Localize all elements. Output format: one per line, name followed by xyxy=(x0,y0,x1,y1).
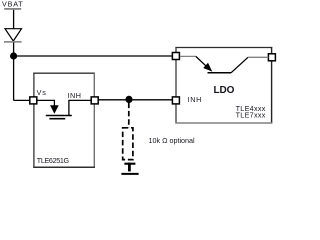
wire U1 INH pin to node B xyxy=(98,99,129,101)
svg-text:LDO: LDO xyxy=(214,85,235,96)
junction node B xyxy=(125,96,132,103)
transistor Q1 top bar xyxy=(46,115,72,117)
wire dashed node B to resistor R1 xyxy=(128,103,130,128)
diode D1 (reverse-polarity protection) xyxy=(4,29,22,43)
svg-text:INH: INH xyxy=(188,95,202,104)
pin INH of U2 xyxy=(172,97,179,104)
transistor Q2 emitter arrow xyxy=(203,63,212,72)
wire node B to LDO INH pin xyxy=(129,99,172,101)
IC U1 TLE6251G box xyxy=(33,73,95,168)
wire node A to LDO input pin (top rail) xyxy=(14,55,173,57)
pin Vs of U1 xyxy=(30,97,37,104)
wire Q1 drain to INH pin xyxy=(69,100,91,115)
transistor Q2 collector stub xyxy=(248,56,268,58)
pin INH of U1 xyxy=(91,97,98,104)
transistor Q1 gate arrow xyxy=(50,105,59,114)
wire node A down to Vs level xyxy=(13,56,15,100)
svg-text:10k Ω optional: 10k Ω optional xyxy=(149,136,196,145)
svg-text:TLE7xxx: TLE7xxx xyxy=(236,111,266,120)
ground xyxy=(121,163,138,174)
VBAT supply rail bar xyxy=(4,8,21,10)
transistor Q1 bottom bar xyxy=(49,118,65,120)
svg-text:VBAT: VBAT xyxy=(2,0,23,8)
IC U2 LDO box xyxy=(175,47,272,124)
svg-text:TLE6251G: TLE6251G xyxy=(37,156,70,165)
pin output of U2 xyxy=(268,54,275,61)
transistor Q2 base bar xyxy=(208,72,232,74)
transistor Q1 inside U1 (gate wire) xyxy=(37,100,54,106)
wire diode cathode to node A xyxy=(13,43,15,57)
svg-text:INH: INH xyxy=(68,91,82,100)
wire VBAT rail to diode anode xyxy=(13,10,15,29)
wire to Vs pin xyxy=(14,99,31,101)
transistor Q2 emitter diagonal xyxy=(196,56,209,68)
pin input of U2 xyxy=(172,53,179,60)
resistor R1 10kOhm optional (dashed body) xyxy=(123,128,133,160)
transistor Q2 pass device in U2 (emitter stub) xyxy=(180,55,196,57)
junction node A xyxy=(10,52,17,59)
svg-text:Vs: Vs xyxy=(37,88,47,97)
transistor Q2 collector diagonal xyxy=(231,57,248,73)
